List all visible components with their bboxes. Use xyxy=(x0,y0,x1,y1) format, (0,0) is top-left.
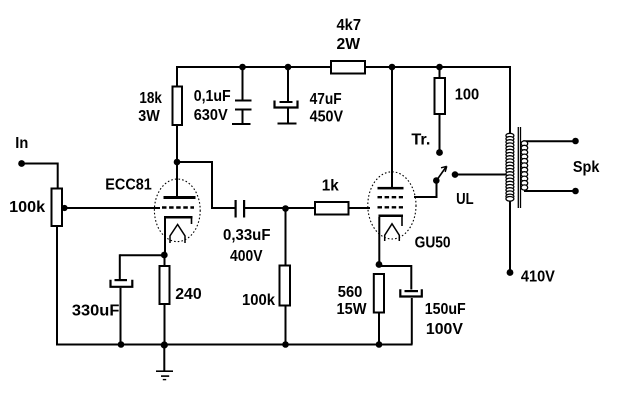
svg-text:1k: 1k xyxy=(322,178,339,195)
svg-text:UL: UL xyxy=(456,191,474,208)
svg-text:Tr.: Tr. xyxy=(411,132,430,149)
svg-text:150uF: 150uF xyxy=(425,301,466,318)
svg-text:47uF: 47uF xyxy=(310,91,342,108)
svg-text:18k: 18k xyxy=(139,90,162,107)
svg-text:GU50: GU50 xyxy=(415,235,451,252)
svg-text:In: In xyxy=(15,135,28,152)
svg-text:100k: 100k xyxy=(242,292,275,309)
svg-text:330uF: 330uF xyxy=(72,303,120,320)
svg-text:15W: 15W xyxy=(337,301,368,318)
svg-text:100V: 100V xyxy=(426,321,463,338)
svg-text:3W: 3W xyxy=(138,108,160,125)
svg-text:560: 560 xyxy=(338,284,363,301)
svg-text:410V: 410V xyxy=(521,269,555,286)
svg-text:450V: 450V xyxy=(310,109,344,126)
svg-text:2W: 2W xyxy=(337,36,361,53)
svg-text:ECC81: ECC81 xyxy=(105,177,152,194)
svg-text:240: 240 xyxy=(175,286,202,303)
svg-text:400V: 400V xyxy=(230,248,263,265)
svg-text:Spk: Spk xyxy=(573,159,600,176)
svg-text:100k: 100k xyxy=(9,199,45,216)
svg-text:4k7: 4k7 xyxy=(337,17,362,34)
svg-text:630V: 630V xyxy=(194,107,228,124)
svg-text:0,33uF: 0,33uF xyxy=(223,227,271,244)
svg-text:100: 100 xyxy=(455,87,480,104)
svg-text:0,1uF: 0,1uF xyxy=(194,88,231,105)
